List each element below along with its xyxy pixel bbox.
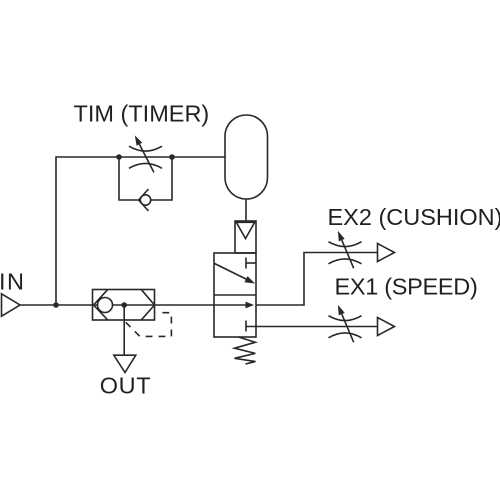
quick exhaust valve poppet disc <box>98 298 113 313</box>
wire to OUT port <box>123 305 125 355</box>
node right junction of throttle <box>169 154 175 160</box>
svg-text:EX2 (CUSHION): EX2 (CUSHION) <box>328 204 500 230</box>
node left junction of throttle <box>116 154 122 160</box>
quick exhaust valve QV body <box>93 290 155 321</box>
accumulator tank (air reservoir) <box>225 115 268 199</box>
dashed pilot exhaust path <box>126 313 172 337</box>
wire tank to pilot <box>245 199 247 221</box>
svg-text:TIM (TIMER): TIM (TIMER) <box>74 100 210 126</box>
valve V1 top position flow arrow <box>215 264 256 284</box>
wire bypass loop <box>119 157 172 200</box>
exhaust port EX2 <box>378 244 395 262</box>
quick exhaust valve seat <box>94 290 108 320</box>
check valve CV1 (bypass) <box>139 189 151 211</box>
svg-text:EX1 (SPEED): EX1 (SPEED) <box>335 274 478 300</box>
svg-text:IN: IN <box>0 269 26 295</box>
valve V1 bottom position blocked exhaust port <box>245 321 247 332</box>
throttle valve TIM (variable restrictor) <box>129 135 162 172</box>
exhaust port EX1 <box>378 318 395 336</box>
wire vertical branch to timer <box>56 157 225 305</box>
throttle valve EX2 (cushion needle) <box>329 231 362 268</box>
valve V1 body (3-port 2-position) <box>214 253 256 337</box>
svg-text:OUT: OUT <box>100 372 151 398</box>
node OUT junction <box>121 302 127 308</box>
port OUT <box>100 355 151 398</box>
wire valve output to EX2 line <box>256 253 378 306</box>
throttle valve EX1 (speed needle) <box>329 305 362 342</box>
port IN <box>0 269 26 317</box>
valve V1 top position blocked port <box>246 258 256 269</box>
wire main supply line <box>20 304 214 306</box>
wire valve exhaust to EX1 line <box>246 326 378 328</box>
node junction at IN branch <box>53 302 59 308</box>
pilot actuator (pneumatic pilot) <box>235 221 256 253</box>
valve V1 bottom position flow arrow <box>214 302 254 309</box>
spring return <box>235 337 256 364</box>
quick exhaust valve right cone <box>142 290 155 320</box>
